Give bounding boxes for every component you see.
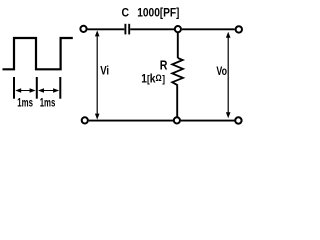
svg-text:Vo: Vo — [216, 65, 227, 79]
svg-text:1000[PF]: 1000[PF] — [137, 7, 179, 20]
svg-text:1ms: 1ms — [17, 97, 33, 110]
svg-text:1[kΩ]: 1[kΩ] — [141, 72, 165, 85]
svg-text:1ms: 1ms — [40, 97, 56, 110]
svg-text:R: R — [160, 59, 168, 73]
svg-text:Vi: Vi — [100, 64, 109, 77]
svg-text:C: C — [122, 7, 130, 20]
